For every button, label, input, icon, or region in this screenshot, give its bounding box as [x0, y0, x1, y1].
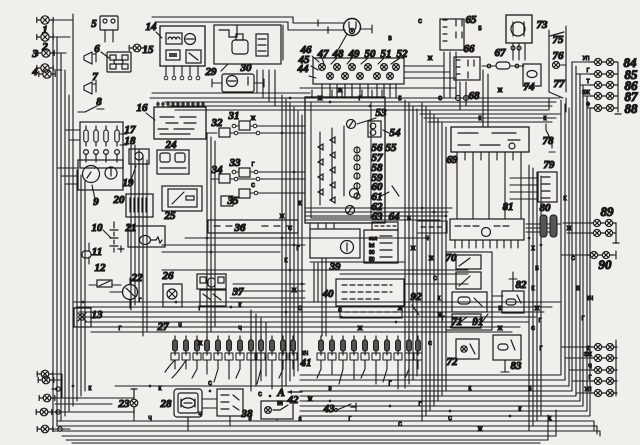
svg-text:Ж: Ж [251, 116, 256, 122]
connector row under 40 [340, 306, 402, 318]
regulator contact box inside 14 [186, 50, 201, 63]
cluster lamps column [354, 147, 360, 153]
svg-text:Ж: Ж [478, 427, 483, 433]
wire far-right feeds to tail lamps [561, 346, 590, 348]
wire left vertical bundle [52, 20, 54, 431]
cluster inner box [311, 102, 371, 218]
wire tail lamp right ends [613, 346, 616, 348]
small box inside 14 [166, 50, 180, 60]
lamp 4b headlamp [39, 70, 55, 78]
svg-text:КЧ: КЧ [587, 296, 593, 302]
fuse cartridge 80b [550, 215, 557, 237]
resistor 67 [496, 62, 510, 69]
svg-text:29: 29 [205, 66, 218, 78]
wire label53 leader [357, 118, 376, 124]
switch 61 symbol [392, 186, 399, 196]
svg-text:22: 22 [131, 272, 144, 284]
fuel pump 72 box [456, 339, 479, 359]
svg-text:К: К [438, 296, 441, 302]
wire mid horizontal bus [73, 301, 560, 303]
svg-text:Г: Г [139, 298, 142, 304]
wire 67-68 drops [482, 70, 484, 127]
wire box37 to cluster links [233, 283, 305, 285]
wire 79 feeds [510, 177, 538, 179]
gauge circle 9b [105, 167, 117, 179]
relay 31 box [239, 121, 250, 130]
svg-text:Г: Г [540, 346, 543, 352]
instrument cluster box [305, 97, 385, 223]
svg-text:Ж: Ж [308, 397, 313, 403]
svg-text:Ч: Ч [425, 236, 428, 242]
wire 89 feeds [563, 222, 589, 224]
svg-text:50: 50 [365, 48, 377, 60]
svg-text:6: 6 [94, 43, 100, 55]
wire headlamp feed lines [293, 22, 344, 24]
lamp pair 85 [590, 70, 617, 77]
starter relay box 29 outer [214, 25, 281, 64]
svg-text:УП: УП [583, 56, 590, 62]
svg-text:ЗЖ: ЗЖ [584, 352, 592, 358]
wire 12 leads [89, 284, 97, 286]
lamp inside headlamp [349, 28, 354, 33]
svg-text:63: 63 [372, 211, 384, 223]
battery 10 [110, 222, 118, 252]
wire lamp row right links [404, 65, 444, 67]
wire 66 drops [459, 82, 461, 110]
lamp pair tail-4 [590, 377, 617, 384]
svg-text:16: 16 [137, 102, 149, 114]
wire 47-52 leader lines [322, 58, 324, 64]
wire 81 to right bundle links [526, 223, 561, 225]
connector 79 box [538, 172, 557, 202]
svg-text:К: К [159, 386, 162, 392]
pins under 81 [454, 240, 456, 248]
cluster diode column a [330, 137, 335, 143]
indicator 54 box [368, 121, 381, 137]
lamp 1 front marker [37, 16, 53, 24]
fuse 27-9 [259, 336, 264, 355]
wire 91 arrow [482, 314, 488, 322]
svg-text:21: 21 [125, 222, 137, 234]
wire 83 bottom lead [504, 360, 506, 372]
svg-text:37: 37 [232, 286, 245, 298]
svg-text:Ч: Ч [588, 364, 591, 370]
svg-text:К: К [479, 116, 482, 122]
lamp 3 turn signal [38, 49, 54, 57]
wire label14 arrow [156, 32, 162, 38]
wire 61 arrow [381, 192, 389, 196]
fuse 41-6 [374, 336, 379, 355]
lamp plate-left 2 [37, 425, 53, 433]
relay 25 box [162, 186, 202, 211]
svg-text:55: 55 [386, 142, 398, 154]
svg-text:Б: Б [535, 266, 539, 272]
wire box37 drops [250, 310, 252, 391]
regulator coil inside 14 [166, 33, 182, 44]
fuse 41-8 [396, 336, 401, 355]
wire left lower verticals [76, 170, 78, 401]
wire label17 arrow [120, 133, 127, 135]
fuse 17c [104, 126, 108, 146]
svg-text:23: 23 [118, 398, 131, 410]
svg-text:90: 90 [599, 257, 613, 272]
svg-text:З: З [248, 416, 251, 422]
svg-text:Ж: Ж [498, 326, 503, 332]
wire 33/34/35 leads [211, 178, 219, 180]
svg-text:64: 64 [389, 211, 401, 223]
wire top bus over box29 [152, 16, 293, 18]
svg-text:30: 30 [240, 62, 253, 74]
svg-text:Ж: Ж [429, 256, 434, 262]
svg-text:5: 5 [91, 18, 97, 30]
svg-text:С: С [208, 381, 212, 387]
wire left-center verticals [130, 140, 132, 310]
svg-text:Х: Х [531, 246, 535, 252]
relay 83 box [493, 335, 521, 360]
wire top bus bend-downs [292, 17, 294, 23]
wire box5 leads [104, 30, 106, 42]
svg-text:Т: Т [586, 79, 589, 85]
svg-text:20: 20 [113, 194, 126, 206]
svg-text:43: 43 [323, 403, 336, 415]
junction dots [206, 237, 209, 240]
fuse 27-4 [205, 336, 210, 355]
fuse 27-11 [281, 336, 286, 355]
lamps in row upper [319, 64, 326, 71]
wire label9 arrow [92, 185, 95, 199]
wire fuse41 fan-down [320, 360, 322, 369]
cluster diode column wires [319, 132, 321, 205]
fuse 41-10 [416, 336, 421, 355]
wire fuse fan diagonals right block [317, 369, 321, 378]
svg-text:69: 69 [447, 154, 459, 166]
svg-text:Кч: Кч [277, 401, 283, 407]
wire 40-70 link lines [336, 269, 468, 271]
fuse lower row [84, 150, 89, 155]
svg-text:12: 12 [95, 262, 107, 274]
wire fuse27 fan curves [165, 360, 175, 372]
svg-text:79: 79 [544, 159, 556, 171]
svg-text:36: 36 [234, 222, 247, 234]
relay 82 box [502, 291, 524, 313]
ammeter circle [341, 241, 354, 254]
lamp 42 box [261, 401, 293, 419]
relay 70d [452, 314, 481, 328]
lamp plate-left 1 [36, 408, 52, 416]
svg-text:Ж: Ж [338, 88, 343, 94]
svg-text:зал: зал [369, 236, 377, 242]
svg-text:Г: Г [419, 402, 422, 408]
svg-text:75: 75 [553, 34, 565, 46]
washer pump 21 box [128, 226, 165, 247]
lamp tail-left 1 [37, 370, 53, 378]
svg-text:42: 42 [287, 394, 300, 406]
lamp 2 front marker [37, 33, 53, 41]
svg-text:24: 24 [165, 139, 178, 151]
motor 73 circle [511, 22, 525, 36]
svg-text:13: 13 [92, 309, 104, 321]
svg-text:Ж: Ж [198, 341, 203, 347]
voltage regulator box 14 [160, 26, 205, 66]
wire far-right vertical bundle [560, 100, 562, 375]
svg-text:Г: Г [119, 326, 122, 332]
wire mid horizontal lines center [305, 207, 452, 209]
relay 70b [456, 272, 481, 289]
svg-text:Ж: Ж [358, 326, 363, 332]
relay 70c [452, 292, 487, 312]
svg-text:49: 49 [348, 48, 361, 60]
gauge circle 9a [83, 166, 100, 183]
svg-text:68: 68 [469, 90, 481, 102]
wire far-right feeds to top lamps [572, 61, 590, 63]
svg-text:46: 46 [300, 44, 313, 56]
svg-text:Б: Б [398, 96, 402, 102]
starter shapes inside 29 [219, 26, 237, 37]
svg-text:К: К [499, 306, 502, 312]
connector strip right of 36 [417, 221, 447, 233]
svg-text:Г: Г [252, 162, 255, 168]
svg-text:15: 15 [143, 44, 155, 56]
transformer in 20 [130, 198, 146, 212]
wire gaugebox left stubs [57, 167, 78, 169]
svg-text:Ж: Ж [318, 96, 323, 102]
svg-text:С: С [298, 306, 302, 312]
coil 20 box [126, 194, 153, 217]
svg-text:К: К [587, 346, 590, 352]
lamp 23 [130, 399, 138, 407]
svg-text:71: 71 [452, 316, 463, 328]
fuse 27-8 [249, 336, 254, 355]
ignition switch small box [372, 222, 398, 230]
svg-text:С: С [418, 19, 422, 25]
fuse 17a [84, 126, 88, 146]
wire 70 to 82 link [492, 295, 503, 297]
svg-text:77: 77 [554, 78, 566, 90]
svg-text:40: 40 [322, 288, 335, 300]
svg-text:10: 10 [92, 222, 104, 234]
svg-text:К: К [89, 386, 92, 392]
lamp pair 89a [589, 219, 616, 226]
svg-text:ЗЖ: ЗЖ [582, 90, 590, 96]
starter 30 box [222, 74, 254, 92]
lamp pair 90 [586, 251, 613, 258]
ignition switch box [364, 230, 398, 263]
fuse 41-3 [341, 336, 346, 355]
wire fuse fan diagonals left block [192, 369, 197, 378]
fuse cartridge 80a [540, 215, 547, 237]
capacitor 11 [82, 251, 91, 258]
svg-text:Ч: Ч [148, 416, 151, 422]
svg-text:int: int [369, 243, 375, 249]
svg-text:С: С [433, 276, 437, 282]
connector strip 36 [208, 220, 298, 233]
svg-text:31: 31 [228, 110, 240, 122]
instrument lamp row box [313, 58, 404, 84]
svg-text:26: 26 [162, 270, 175, 282]
svg-text:С: С [398, 422, 402, 428]
svg-text:74: 74 [524, 81, 536, 93]
svg-text:39: 39 [329, 261, 342, 273]
wire label6 arrow [101, 52, 109, 58]
washer relay 66 box [454, 57, 480, 80]
fuse 27-7 [238, 336, 243, 355]
wire 90 right end [613, 254, 616, 256]
relay block 69 box [451, 127, 529, 152]
turnsignal switch 37 lower box [200, 290, 226, 306]
fuse 41-5 [363, 336, 368, 355]
fuse 15 lamp symbol [129, 44, 145, 52]
horn relay box 5 [100, 16, 118, 30]
connector plate-left a [56, 410, 60, 414]
starter motor circle 30 [227, 76, 238, 87]
svg-text:Ч: Ч [178, 323, 181, 329]
fuse block box 17-18 [80, 122, 123, 168]
switch 78 [546, 130, 552, 142]
heater switch 38 box [217, 389, 243, 416]
svg-text:Г: Г [582, 316, 585, 322]
switch 43 [337, 404, 351, 410]
horn 7 upper [84, 52, 92, 64]
wire lamp leads left top [52, 19, 73, 21]
wire bottom horizontal bus [300, 374, 561, 376]
wire bottom bus right bends [593, 421, 595, 430]
svg-text:УП: УП [585, 387, 592, 393]
relay 33 box [239, 168, 250, 177]
horn 7 lower [84, 82, 92, 94]
svg-text:65: 65 [466, 14, 478, 26]
pins under 69 [456, 152, 458, 160]
washer switch 24 box [157, 150, 189, 174]
svg-text:30: 30 [369, 250, 375, 256]
wire tail lamp common rail [615, 340, 617, 396]
svg-text:Г: Г [539, 318, 542, 324]
fuse 27-1 [173, 336, 178, 355]
svg-text:Ф: Ф [586, 102, 590, 108]
wire bottom outer bus [62, 435, 556, 437]
motor 73 box [506, 15, 532, 43]
generator circle inside 14 [185, 34, 196, 45]
gauge box 9 [78, 160, 123, 190]
relay 6 box [107, 52, 131, 72]
fuse 41-2 [330, 336, 335, 355]
gauge 53 circle [347, 120, 356, 129]
wire box29 drop to bus [256, 70, 258, 93]
wire 90 feed [561, 254, 586, 256]
lamp tail-left 2 [38, 376, 54, 384]
svg-text:К: К [549, 416, 552, 422]
wire label54 arrow [383, 130, 389, 133]
light switch 40 box [336, 279, 404, 306]
svg-text:Ж: Ж [292, 288, 297, 294]
fuse 41-1 [319, 336, 324, 355]
wire label10 arrow [103, 230, 111, 238]
svg-text:Б: Б [478, 26, 482, 32]
wire lamp row drops [321, 84, 323, 98]
gauge 62 circle [346, 206, 355, 215]
svg-text:76: 76 [553, 50, 565, 62]
wire label19 arrow [131, 166, 136, 180]
svg-text:47: 47 [317, 48, 330, 60]
svg-text:З: З [328, 386, 331, 392]
connector tail-left [56, 387, 60, 391]
wire lamp 84-88 common rail [617, 62, 619, 112]
svg-text:Г: Г [389, 381, 392, 387]
switch 77 [549, 92, 563, 98]
svg-text:Ж: Ж [280, 214, 285, 220]
lamp pair 89b [589, 229, 616, 236]
svg-text:К: К [469, 386, 472, 392]
wire fuse straight drops [206, 369, 208, 374]
svg-text:51: 51 [381, 48, 392, 60]
wire 31/32 leads [206, 132, 217, 134]
svg-text:Ж: Ж [567, 226, 572, 232]
svg-text:80: 80 [540, 202, 552, 214]
wire 75 loop [548, 36, 550, 88]
distributor 22 circle [123, 285, 138, 300]
relay 32 box [219, 128, 230, 137]
connector 68 symbols [456, 96, 461, 101]
wire links under box36 [185, 237, 430, 239]
ignition coil box 16 [154, 107, 206, 139]
switch 75 [550, 32, 564, 36]
svg-text:К: К [285, 258, 288, 264]
wire 73 drop circles [511, 46, 515, 50]
wire 89 bracket [615, 223, 617, 240]
svg-text:Г: Г [359, 96, 362, 102]
wire tail-left bracket [61, 374, 63, 398]
wiper relay 65 box [440, 19, 464, 50]
lamp tail-left 3 [39, 394, 55, 402]
wire cluster bottom pins [309, 223, 311, 229]
wire headlamp leader to label 48 [338, 34, 347, 50]
wire label44-46 arrows [309, 76, 316, 78]
svg-text:28: 28 [160, 398, 173, 410]
wire 28-38 link [202, 398, 217, 400]
svg-text:54: 54 [390, 127, 402, 139]
svg-text:Г: Г [587, 68, 590, 74]
wire box39 down drops [321, 258, 323, 336]
svg-text:С: С [438, 96, 442, 102]
svg-text:Ж: Ж [498, 88, 503, 94]
wire cluster top pins [311, 90, 313, 97]
lamps in row lower [327, 73, 334, 80]
inner marks of 16 [158, 117, 196, 134]
svg-text:3: 3 [31, 48, 38, 60]
svg-text:88: 88 [625, 101, 639, 116]
svg-text:С: С [288, 226, 292, 232]
svg-text:14: 14 [146, 21, 158, 33]
pins on top of 16 [157, 102, 159, 107]
wire center vertical bundle [281, 95, 283, 391]
wire 65 drops [443, 52, 445, 98]
wire headlamp right lead [360, 28, 372, 30]
relay 74 box [523, 64, 541, 86]
wire label16 arrow [146, 113, 155, 120]
wire 69 pin drops to 81 [456, 160, 458, 219]
wire pins under 14 [165, 66, 167, 76]
wire right-center vertical bundle [528, 165, 530, 431]
wire switch8 leads [78, 111, 85, 113]
fuse 17b [94, 126, 98, 146]
connector circles under box 14 [164, 76, 168, 80]
svg-text:С: С [571, 256, 575, 262]
svg-text:89: 89 [601, 204, 615, 219]
svg-text:73: 73 [537, 19, 549, 31]
fuse 41-7 [385, 336, 390, 355]
svg-text:53: 53 [376, 107, 388, 119]
heater motor 28 box [174, 389, 202, 417]
fuse 27-12 [291, 336, 296, 355]
